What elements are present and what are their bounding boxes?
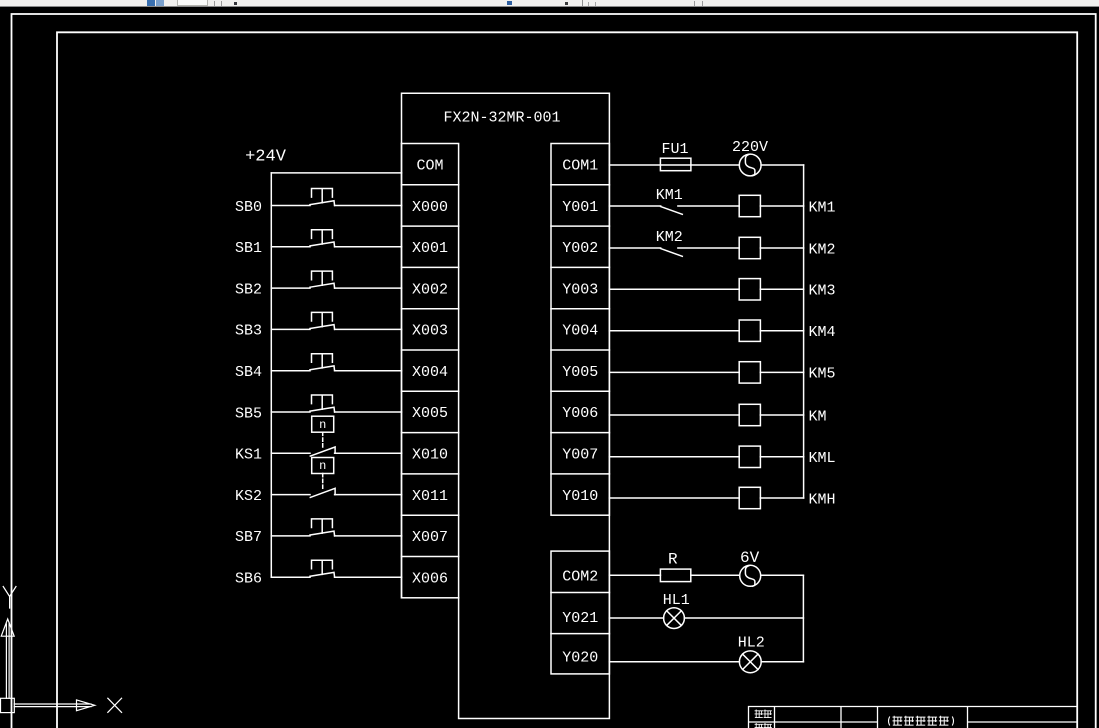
svg-text:KM1: KM1: [809, 199, 836, 216]
fuse FU1: [660, 158, 691, 171]
UCS icon X axis letter: [108, 698, 122, 712]
output cell divider 3: [551, 266, 609, 268]
contactor coil KM1: [739, 195, 760, 216]
wire COM1 to fuse FU1: [609, 164, 660, 166]
lamp HL1: [664, 608, 685, 629]
svg-text:HL1: HL1: [663, 592, 690, 609]
svg-text:COM2: COM2: [562, 568, 598, 585]
svg-text:KM1: KM1: [656, 187, 683, 204]
pushbutton SB7 actuator cap: [312, 519, 333, 533]
wire AC source to right bus: [761, 164, 804, 166]
svg-text:HL2: HL2: [738, 634, 765, 651]
output cell divider 1: [551, 184, 609, 186]
UCS icon X axis shaft: [14, 704, 76, 707]
wire COM2 to resistor R: [609, 574, 660, 576]
svg-text:Y004: Y004: [562, 323, 598, 340]
svg-text:X005: X005: [412, 405, 448, 422]
AC source 220V sine mark: [745, 154, 755, 175]
wire coil KM1 to bus: [760, 205, 803, 207]
output cell divider 2: [551, 225, 609, 227]
wire coil KMH to bus: [760, 497, 803, 499]
pushbutton SB3 actuator cap: [312, 312, 333, 326]
pushbutton SB0 contact blade: [310, 201, 335, 206]
speed contact KS2 blade: [310, 488, 335, 497]
svg-text:X006: X006: [412, 570, 448, 587]
wire coil KML to bus: [760, 456, 803, 458]
contactor coil KML: [739, 446, 760, 467]
UCS icon Y arrowhead: [1, 619, 14, 636]
lower cell divider 1: [551, 592, 609, 594]
PLC left edge segment along input cells: [401, 144, 403, 598]
svg-text:Y001: Y001: [562, 199, 598, 216]
PLC module FX2N-32MR-001 outline U1: [402, 93, 610, 718]
input cell divider 6: [402, 390, 459, 392]
wire fuse to AC source: [691, 164, 739, 166]
svg-text:KMH: KMH: [809, 491, 836, 508]
svg-text:COM1: COM1: [562, 158, 598, 175]
wire Y output to coil KM5: [609, 371, 739, 373]
svg-text:SB1: SB1: [235, 240, 262, 257]
wire SB4 to PLC input: [335, 370, 402, 372]
svg-text:SB5: SB5: [235, 405, 262, 422]
PLC input terminal cell column (COM,X000..X006): [402, 144, 459, 598]
UCS icon Y axis letter: [3, 587, 16, 609]
pushbutton SB6 actuator cap: [312, 560, 333, 574]
pushbutton SB4 contact blade: [310, 366, 335, 371]
svg-text:KM5: KM5: [809, 366, 836, 383]
lamp HL2: [739, 651, 761, 673]
wire bus to SB6: [271, 576, 310, 578]
wire SB7 to PLC input: [335, 535, 402, 537]
svg-text:R: R: [668, 551, 678, 569]
contactor coil KM3: [739, 279, 760, 300]
wire Y output to contact KM1: [609, 205, 660, 207]
contactor coil KM: [739, 404, 760, 425]
PLC output terminal cell column (COM1,Y001..Y010): [551, 144, 609, 516]
svg-text:Y006: Y006: [562, 405, 598, 422]
speed relay KS2 dashed actuator link: [322, 474, 324, 491]
svg-text:SB4: SB4: [235, 364, 262, 381]
svg-text:KS1: KS1: [235, 447, 262, 464]
wire right 220V bus: [803, 165, 805, 498]
wire coil KM4 to bus: [760, 330, 803, 332]
input cell divider 10: [402, 556, 459, 558]
title block label design (row1): [755, 710, 763, 718]
wire SB5 to PLC input: [335, 411, 402, 413]
svg-text:SB3: SB3: [235, 323, 262, 340]
svg-text:SB7: SB7: [235, 529, 262, 546]
svg-text:n: n: [319, 418, 326, 432]
wire Y output to coil KM: [609, 414, 739, 416]
wire contact to coil KM1: [678, 205, 739, 207]
wire Y output to coil KML: [609, 456, 739, 458]
svg-text:KS2: KS2: [235, 488, 262, 505]
wire Y output to coil KMH: [609, 497, 739, 499]
wire coil KM5 to bus: [760, 371, 803, 373]
svg-text:Y010: Y010: [562, 488, 598, 505]
auxiliary contact KM1 blade: [661, 207, 683, 215]
pushbutton SB4 actuator cap: [312, 354, 333, 368]
wire Y020 to lamp HL2: [609, 661, 739, 663]
UCS icon origin box: [1, 698, 15, 712]
pushbutton SB5 contact blade: [310, 407, 335, 412]
svg-text:X004: X004: [412, 364, 448, 381]
pushbutton SB2 actuator cap: [312, 271, 333, 285]
pushbutton SB3 contact blade: [310, 325, 335, 330]
PLC lower output cell column (COM2,Y021,Y020): [551, 551, 609, 674]
title block label check (row2, clipped): [755, 724, 763, 728]
svg-text:Y020: Y020: [562, 650, 598, 667]
wire bus to KS2: [271, 494, 310, 496]
wire bus to SB5: [271, 411, 310, 413]
speed relay KS1 body box: [312, 416, 334, 432]
wire through fuse FU1: [660, 164, 691, 166]
wire bus to KS1: [271, 452, 310, 454]
UCS icon Y axis shaft: [6, 636, 9, 698]
svg-text:+24V: +24V: [245, 147, 287, 166]
svg-text:Y003: Y003: [562, 281, 598, 298]
title block material note text: [889, 717, 954, 725]
wire +24V feeder to COM: [271, 172, 401, 174]
svg-text:SB2: SB2: [235, 281, 262, 298]
input cell divider 4: [402, 308, 459, 310]
svg-text:KML: KML: [809, 450, 836, 467]
wire contact to coil KM2: [678, 247, 739, 249]
wire bus to SB2: [271, 287, 310, 289]
input cell divider 3: [402, 266, 459, 268]
wire coil KM to bus: [760, 414, 803, 416]
svg-text:KM3: KM3: [809, 283, 836, 300]
wire 6V source to lower bus: [761, 574, 804, 576]
svg-text:X002: X002: [412, 281, 448, 298]
wire coil KM3 to bus: [760, 288, 803, 290]
svg-text:SB0: SB0: [235, 199, 262, 216]
pushbutton SB1 contact blade: [310, 242, 335, 247]
contactor coil KMH: [739, 487, 760, 508]
wire Y021 to lamp HL1: [609, 617, 663, 619]
input cell divider 7: [402, 432, 459, 434]
svg-text:X003: X003: [412, 323, 448, 340]
svg-text:SB6: SB6: [235, 571, 262, 588]
AC source 220V circle: [739, 154, 761, 176]
svg-text:KM2: KM2: [656, 229, 683, 246]
wire lower right bus: [802, 575, 804, 662]
wire bus to SB7: [271, 535, 310, 537]
UCS icon X arrowhead: [77, 700, 95, 711]
pushbutton SB2 contact blade: [310, 283, 335, 288]
input cell divider 2: [402, 225, 459, 227]
wire Y output to coil KM3: [609, 288, 739, 290]
wire lamp HL1 to lower bus: [684, 617, 803, 619]
AC source 6V circle: [740, 565, 761, 586]
pushbutton SB5 actuator cap: [312, 395, 333, 409]
wire +24V vertical bus: [270, 173, 272, 577]
pushbutton SB1 actuator cap: [312, 230, 333, 244]
wire KS2 to PLC input: [335, 494, 402, 496]
svg-text:X011: X011: [412, 488, 448, 505]
svg-text:KM: KM: [809, 408, 827, 425]
AC source 6V sine mark: [745, 566, 755, 587]
wire KS1 to PLC input: [335, 452, 402, 454]
svg-text:6V: 6V: [740, 549, 760, 567]
contactor coil KM4: [739, 320, 760, 341]
wire bus to SB1: [271, 246, 310, 248]
wire lamp HL2 to lower bus: [761, 661, 803, 663]
pushbutton SB0 actuator cap: [312, 189, 333, 203]
output cell divider 8: [551, 473, 609, 475]
output cell divider 4: [551, 308, 609, 310]
pushbutton SB7 contact blade: [310, 531, 335, 536]
speed relay KS2 body box: [312, 458, 334, 474]
svg-text:X000: X000: [412, 199, 448, 216]
auxiliary contact KM2 blade: [661, 249, 683, 257]
wire SB3 to PLC input: [335, 328, 402, 330]
resistor R: [660, 569, 690, 582]
wire coil KM2 to bus: [760, 247, 803, 249]
title block grid: [749, 707, 1078, 728]
wire bus to SB3: [271, 328, 310, 330]
svg-text:KM4: KM4: [809, 324, 836, 341]
output cell divider 7: [551, 432, 609, 434]
input cell divider 9: [402, 514, 459, 516]
lower cell divider 2: [551, 633, 609, 635]
wire Y output to coil KM4: [609, 330, 739, 332]
svg-text:Y002: Y002: [562, 240, 598, 257]
pushbutton SB6 contact blade: [310, 572, 335, 577]
speed relay KS1 dashed actuator link: [322, 432, 324, 449]
wire SB6 to PLC input: [335, 576, 402, 578]
input cell divider 8: [402, 473, 459, 475]
svg-text:Y021: Y021: [562, 610, 598, 627]
wire SB0 to PLC input: [335, 205, 402, 207]
input cell divider 1: [402, 184, 459, 186]
wire bus to SB4: [271, 370, 310, 372]
speed contact KS1 blade: [310, 447, 335, 456]
svg-text:Y005: Y005: [562, 364, 598, 381]
svg-text:X007: X007: [412, 529, 448, 546]
output cell divider 6: [551, 390, 609, 392]
input cell divider 5: [402, 349, 459, 351]
contactor coil KM5: [739, 362, 760, 383]
svg-text:X001: X001: [412, 240, 448, 257]
svg-text:n: n: [319, 459, 326, 473]
wire SB2 to PLC input: [335, 287, 402, 289]
wire bus to SB0: [271, 205, 310, 207]
svg-text:COM: COM: [416, 158, 443, 175]
svg-text:X010: X010: [412, 447, 448, 464]
wire SB1 to PLC input: [335, 246, 402, 248]
svg-text:220V: 220V: [732, 139, 768, 156]
contactor coil KM2: [739, 237, 760, 258]
wire resistor to AC source 6V: [691, 574, 740, 576]
wire Y output to contact KM2: [609, 247, 660, 249]
svg-text:FU1: FU1: [661, 141, 688, 158]
svg-text:Y007: Y007: [562, 447, 598, 464]
toolbar strip (top window sliver): [0, 0, 1099, 7]
svg-text:FX2N-32MR-001: FX2N-32MR-001: [443, 109, 560, 126]
svg-text:KM2: KM2: [809, 241, 836, 258]
output cell divider 5: [551, 349, 609, 351]
